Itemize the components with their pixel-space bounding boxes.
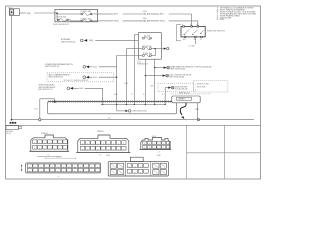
svg-text:FUSE BLOCK: FUSE BLOCK	[137, 64, 149, 66]
svg-text:WITH AUTO DIMMING MIRROR: WITH AUTO DIMMING MIRROR	[64, 79, 89, 82]
svg-text:(SECTION 09-02): (SECTION 09-02)	[133, 111, 147, 113]
svg-text:F-02: F-02	[106, 155, 110, 157]
svg-text:W-01 FUSE BLOCK: W-01 FUSE BLOCK	[53, 24, 70, 26]
svg-text:ROOM 15A: ROOM 15A	[57, 16, 67, 19]
svg-text:IG1: IG1	[194, 39, 197, 41]
svg-text:B: B	[58, 176, 59, 178]
svg-text:BTN-02: BTN-02	[41, 133, 48, 135]
svg-text:W-01: W-01	[56, 157, 60, 159]
svg-text:(SECTION 05-17): (SECTION 05-17)	[38, 89, 52, 91]
svg-text:FUSE BLOCK: FUSE BLOCK	[179, 92, 191, 94]
svg-text:ILLUM. (09-18): ILLUM. (09-18)	[175, 89, 188, 91]
svg-text:IGNITION SWITCH: IGNITION SWITCH	[207, 31, 226, 33]
svg-text:ROOM 15A: ROOM 15A	[143, 52, 153, 55]
svg-text:W(B): W(B)	[89, 40, 93, 42]
svg-text:— WITHOUT 2WD: — WITHOUT 2WD	[195, 83, 210, 85]
svg-text:3(W): 3(W)	[27, 13, 31, 15]
svg-text:GROUND: GROUND	[6, 131, 14, 133]
svg-text:DIMMER: DIMMER	[178, 99, 185, 101]
svg-text:B: B	[190, 24, 191, 26]
svg-text:ST: ST	[200, 39, 202, 41]
svg-text:0.6: 0.6	[108, 118, 110, 120]
svg-text:1.25 B/W: 1.25 B/W	[189, 46, 196, 48]
svg-text:W/L: W/L	[151, 85, 154, 87]
svg-text:F : RHD: F : RHD	[217, 19, 225, 21]
svg-text:B: B	[182, 24, 183, 26]
svg-text:— WITH 2WD: — WITH 2WD	[195, 87, 206, 89]
svg-text:W(G): W(G)	[114, 21, 119, 23]
svg-text:12: 12	[48, 155, 50, 157]
svg-text:B(Y): B(Y)	[160, 14, 164, 16]
svg-text:W(G): W(G)	[160, 21, 165, 23]
svg-text:4(Y): 4(Y)	[34, 108, 38, 110]
svg-text:(SECTION 09-01): (SECTION 09-01)	[61, 41, 76, 43]
svg-text:24: 24	[158, 152, 160, 154]
svg-text:2(W): 2(W)	[143, 18, 147, 20]
svg-text:(09-22): (09-22)	[6, 133, 12, 135]
svg-text:16: 16	[100, 155, 102, 157]
svg-text:(SECTION 09-12): (SECTION 09-12)	[49, 77, 64, 79]
svg-text:IG KEY1 10A: IG KEY1 10A	[81, 10, 92, 13]
svg-text:0.6G: 0.6G	[93, 67, 97, 69]
svg-text:0.6G: 0.6G	[93, 77, 97, 79]
svg-text:(SECTION 09-12): (SECTION 09-12)	[45, 66, 60, 68]
svg-text:(SECTION 09-40): (SECTION 09-40)	[169, 77, 184, 79]
svg-text:B(Y): B(Y)	[114, 14, 118, 16]
svg-text:F-49: F-49	[157, 155, 161, 157]
svg-text:(SECTION 09-40): (SECTION 09-40)	[170, 69, 185, 71]
svg-text:BTN-01: BTN-01	[97, 131, 104, 133]
svg-text:2(W): 2(W)	[143, 11, 147, 13]
